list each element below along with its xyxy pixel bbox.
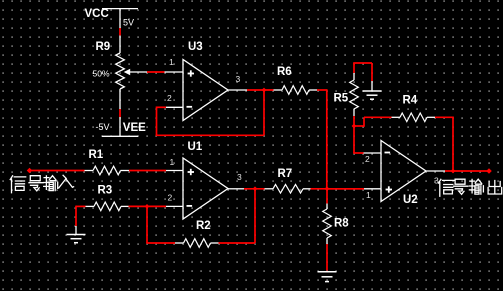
resistor R1 body xyxy=(93,166,121,175)
label signal-input glyph hao xyxy=(29,176,43,191)
resistor R7 left lead xyxy=(265,188,274,190)
wire U3 output red xyxy=(247,89,274,91)
node U1 output junction xyxy=(253,186,258,191)
svg-text:VCC: VCC xyxy=(85,8,109,20)
resistor R6 left lead xyxy=(274,89,283,91)
resistor R5 bottom lead xyxy=(353,109,355,116)
svg-text:50%: 50% xyxy=(93,68,110,78)
resistor R7 right lead xyxy=(303,188,311,190)
resistor R6 right lead xyxy=(309,89,317,91)
svg-text:2: 2 xyxy=(168,193,173,203)
pin stub U2 output xyxy=(426,170,445,172)
svg-text:U1: U1 xyxy=(188,141,203,153)
ground lead left xyxy=(75,226,77,234)
wire VEE lead white xyxy=(119,117,121,136)
wire R7 to junction red xyxy=(311,188,365,190)
wire R1 input red xyxy=(30,170,85,172)
pin stub U3 pin1 xyxy=(165,71,184,73)
svg-text:R9: R9 xyxy=(96,41,111,53)
label signal-input glyph shu xyxy=(44,176,58,191)
wire R2 right vertical xyxy=(254,188,256,243)
resistor R1 right lead xyxy=(121,170,130,172)
ground lead top-right xyxy=(371,81,373,91)
resistor R6 body xyxy=(282,86,309,95)
wire pot top lead xyxy=(119,36,121,54)
resistor R2 right lead xyxy=(211,242,219,244)
wire R5 top red xyxy=(353,63,355,73)
op-amp U3 xyxy=(183,60,228,121)
wire R2 left vertical xyxy=(146,206,148,243)
potentiometer R9 body xyxy=(116,53,125,89)
node R4/U2out junction xyxy=(451,169,456,174)
svg-text:1: 1 xyxy=(169,57,174,67)
wire U3 pin2 red stub xyxy=(157,106,167,108)
resistor R8 top lead xyxy=(326,204,328,210)
wire U2 pin2 drop xyxy=(353,126,355,153)
resistor R3 left lead xyxy=(86,205,95,207)
pin stub U3 output xyxy=(228,89,247,91)
pin stub U3 pin2 xyxy=(166,106,183,108)
wire U2 output red xyxy=(445,170,489,172)
svg-text:R7: R7 xyxy=(278,168,293,180)
resistor R5 top lead xyxy=(353,73,355,80)
resistor R1 left lead xyxy=(85,170,94,172)
svg-text:-5V: -5V xyxy=(96,122,110,132)
svg-text:3: 3 xyxy=(237,172,242,182)
wire U3 feedback left vertical xyxy=(156,107,158,136)
wire wiper to U3 pin1 red xyxy=(147,71,165,73)
node R7/R8/U2 junction xyxy=(325,186,330,191)
label signal-input glyph ru xyxy=(59,175,74,188)
svg-text:3: 3 xyxy=(236,74,241,84)
wire U3 feedback bottom xyxy=(156,134,264,136)
resistor R4 left lead xyxy=(392,116,401,118)
wire U1 output red xyxy=(244,188,265,190)
svg-text:R4: R4 xyxy=(403,95,418,107)
wire R2 bottom right xyxy=(219,242,256,244)
svg-text:R6: R6 xyxy=(277,66,292,78)
power symbol VEE bar xyxy=(102,135,138,137)
resistor R2 left lead xyxy=(175,242,184,244)
ground symbol top-right xyxy=(363,90,382,92)
svg-text:2: 2 xyxy=(365,154,370,164)
resistor R4 body xyxy=(400,113,427,122)
wire R3 to U1 red xyxy=(129,205,167,207)
resistor R5 body xyxy=(350,80,359,109)
label signal-output glyph xin xyxy=(439,179,455,196)
node U3 output junction xyxy=(262,88,267,93)
svg-text:U2: U2 xyxy=(403,194,418,206)
U2 minus sign xyxy=(385,152,391,154)
svg-text:R5: R5 xyxy=(334,93,349,105)
wire U3 feedback right vertical xyxy=(263,90,265,135)
wire R6 right red xyxy=(317,89,327,91)
wire R4 right red xyxy=(435,116,453,118)
pin stub U1 pin1 xyxy=(166,170,183,172)
wire R4 jog xyxy=(354,125,364,127)
ground symbol bottom xyxy=(318,271,337,273)
svg-text:VEE: VEE xyxy=(123,122,146,134)
ground symbol left xyxy=(67,234,86,236)
wire R5 bottom red xyxy=(353,116,355,126)
wire R8 top red xyxy=(326,189,328,204)
wire VCC lead white upper xyxy=(119,9,121,28)
wire R3 left corner xyxy=(76,205,86,207)
svg-text:3: 3 xyxy=(434,176,439,186)
label signal-output glyph hao xyxy=(454,179,468,194)
svg-text:2: 2 xyxy=(167,93,172,103)
svg-text:R1: R1 xyxy=(89,149,104,161)
svg-text:R2: R2 xyxy=(196,220,211,232)
wire U2 pin1 red xyxy=(327,188,364,190)
wire R2 bottom left xyxy=(146,242,175,244)
label signal-output glyph chu xyxy=(488,181,502,195)
label signal-output glyph shu xyxy=(469,179,483,194)
resistor R2 body xyxy=(184,239,211,248)
resistor R8 body xyxy=(323,209,332,238)
pin stub U1 pin2 xyxy=(166,205,183,207)
svg-text:1: 1 xyxy=(170,157,175,167)
svg-text:U3: U3 xyxy=(188,41,203,53)
node output terminal dot xyxy=(486,168,492,174)
pin stub U2 pin1 xyxy=(364,188,381,190)
pin stub U2 pin2 xyxy=(364,152,382,154)
resistor R3 body xyxy=(94,202,121,211)
svg-text:1: 1 xyxy=(366,190,371,200)
wire R6 drop vertical xyxy=(326,89,328,189)
node R5/R4/U2 junction xyxy=(352,124,357,129)
op-amp U2 xyxy=(381,141,426,202)
resistor R3 right lead xyxy=(121,205,129,207)
wire VCC red segment xyxy=(119,28,121,36)
wire R1 to U1 red xyxy=(129,170,166,172)
node input terminal dot xyxy=(27,168,33,174)
U3 minus sign xyxy=(187,106,193,108)
potentiometer R9 wiper arrow xyxy=(124,69,131,76)
node R3/R2/U1 junction xyxy=(145,204,150,209)
wire R8 to ground red xyxy=(326,244,328,271)
U1 minus sign xyxy=(187,205,193,207)
wire VEE red segment xyxy=(119,109,121,117)
svg-text:R8: R8 xyxy=(334,218,349,230)
U2 plus sign xyxy=(386,189,392,191)
U1 plus sign xyxy=(188,171,194,173)
U3 plus sign xyxy=(188,73,194,75)
resistor R4 right lead xyxy=(427,116,435,118)
resistor R8 bottom lead xyxy=(326,238,328,244)
pin stub U1 output xyxy=(228,188,244,190)
label signal-input glyph xin xyxy=(10,176,26,193)
wire pot bottom lead xyxy=(119,89,121,109)
svg-text:5V: 5V xyxy=(123,17,134,27)
op-amp U1 xyxy=(183,158,228,219)
resistor R7 body xyxy=(273,185,303,194)
svg-text:R3: R3 xyxy=(98,185,113,197)
power symbol VCC bar xyxy=(102,8,138,10)
